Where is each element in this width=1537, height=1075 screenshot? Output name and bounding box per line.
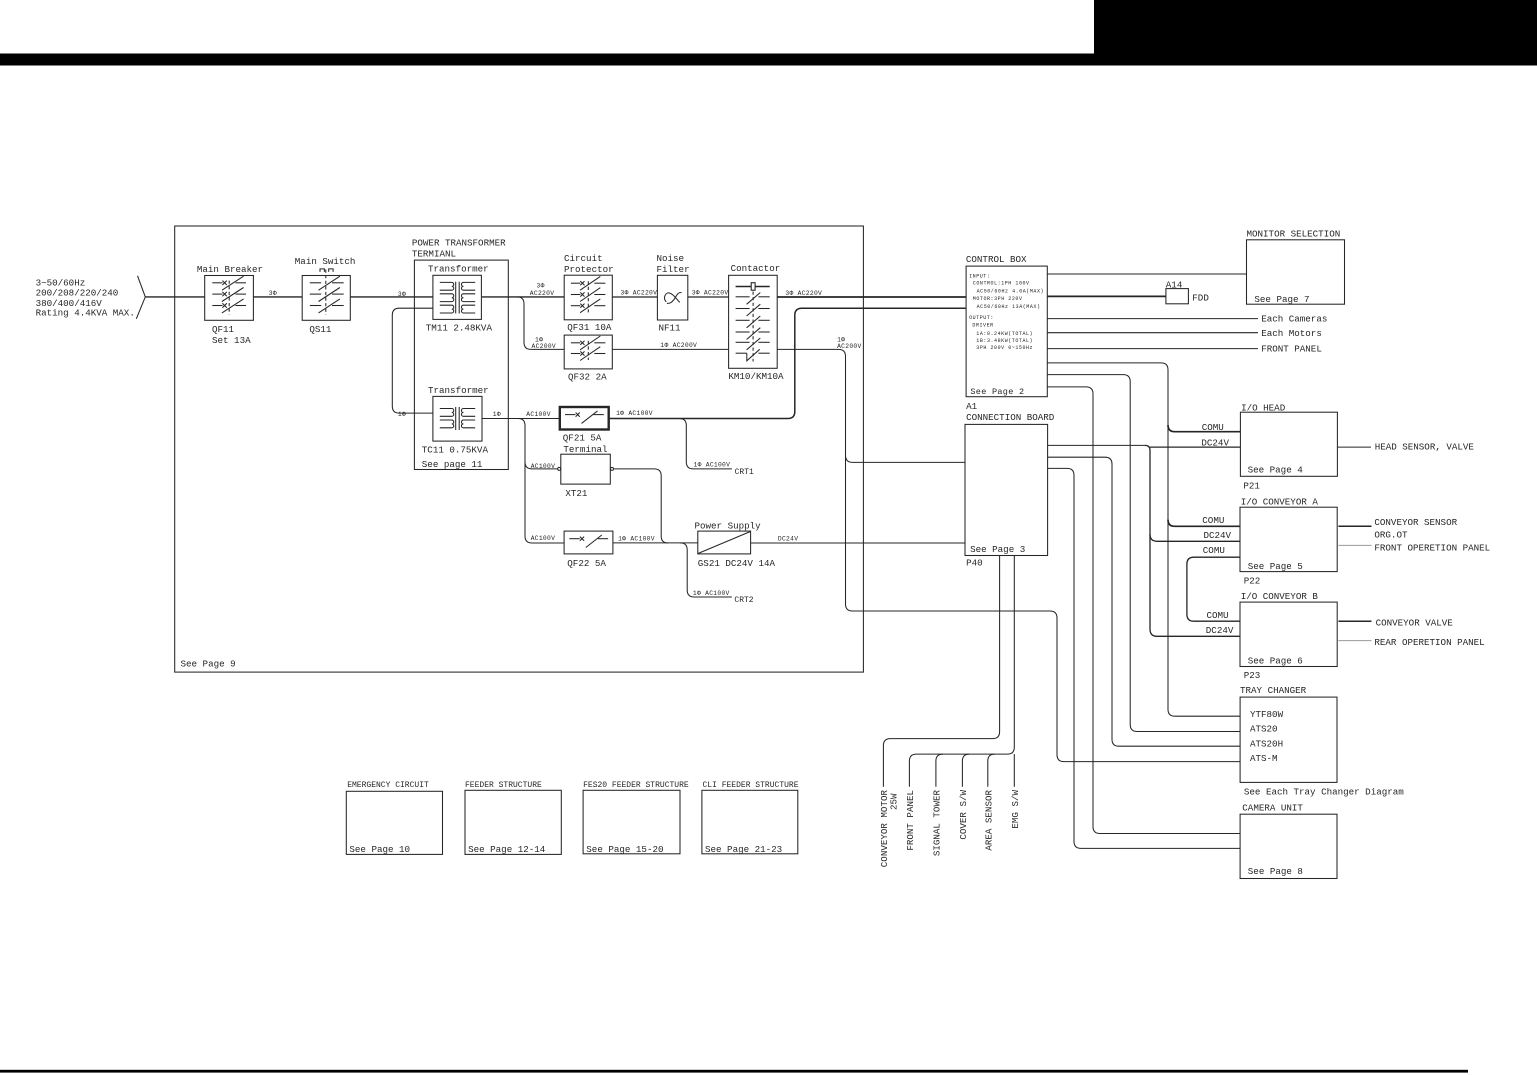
- wire XT21 out joining QF22 output: [614, 469, 669, 543]
- svg-text:Main Switch: Main Switch: [295, 256, 356, 267]
- CLI feeder structure box: [702, 790, 798, 854]
- camera unit box: [1240, 814, 1337, 878]
- I/O conveyor A box: [1240, 507, 1337, 571]
- wire head sensor valve: [1337, 446, 1371, 448]
- svg-text:QF21 5A: QF21 5A: [563, 433, 602, 444]
- wire branch to CRT1: [679, 419, 732, 469]
- svg-text:COMU: COMU: [1207, 610, 1229, 621]
- svg-text:FES20 FEEDER STRUCTURE: FES20 FEEDER STRUCTURE: [583, 781, 689, 790]
- svg-text:MONITOR SELECTION: MONITOR SELECTION: [1247, 229, 1341, 240]
- svg-text:QS11: QS11: [309, 324, 332, 335]
- svg-text:3Φ AC220V: 3Φ AC220V: [785, 290, 822, 297]
- wire COMU link conveyor A to conveyor B: [1187, 557, 1240, 621]
- svg-text:QF32 2A: QF32 2A: [568, 372, 607, 383]
- svg-text:ATS20: ATS20: [1250, 724, 1278, 735]
- wire rear operetion panel: [1338, 640, 1371, 642]
- wire to front panel: [1047, 348, 1258, 350]
- svg-text:1Φ AC100V: 1Φ AC100V: [693, 590, 730, 597]
- svg-text:1A:0.24KW(TOTAL): 1A:0.24KW(TOTAL): [976, 331, 1033, 337]
- svg-text:CONVEYOR SENSOR: CONVEYOR SENSOR: [1374, 517, 1457, 528]
- wire front operetion panel: [1338, 544, 1371, 546]
- svg-text:1Φ AC100V: 1Φ AC100V: [616, 410, 653, 417]
- svg-text:Circuit: Circuit: [564, 253, 603, 264]
- svg-text:DC24V: DC24V: [778, 535, 798, 542]
- I/O conveyor B box: [1240, 602, 1337, 666]
- svg-text:Filter: Filter: [657, 264, 690, 275]
- svg-text:Main Breaker: Main Breaker: [197, 264, 263, 275]
- svg-text:CAMERA UNIT: CAMERA UNIT: [1242, 803, 1303, 814]
- svg-text:1Φ AC100V: 1Φ AC100V: [694, 462, 731, 469]
- svg-text:See Page 8: See Page 8: [1248, 866, 1303, 877]
- svg-text:FRONT OPERETION PANEL: FRONT OPERETION PANEL: [1374, 543, 1490, 554]
- svg-text:FEEDER STRUCTURE: FEEDER STRUCTURE: [465, 781, 542, 790]
- wire to Each Motors: [1047, 332, 1258, 334]
- svg-text:AC200V: AC200V: [532, 343, 556, 350]
- svg-text:CONTROL BOX: CONTROL BOX: [966, 254, 1027, 265]
- svg-text:Each Motors: Each Motors: [1261, 328, 1322, 339]
- wire QF21 out to control box 1PH 100V: [609, 308, 966, 418]
- monitor selection box: [1247, 240, 1345, 304]
- wire QF32 to contactor: [612, 348, 728, 350]
- wire conveyor sensor: [1338, 525, 1371, 527]
- wire supply to QF11: [145, 296, 204, 298]
- svg-text:Set 13A: Set 13A: [212, 335, 251, 346]
- svg-text:3Φ AC220V: 3Φ AC220V: [621, 290, 658, 297]
- svg-text:Power Supply: Power Supply: [695, 521, 762, 532]
- svg-text:I/O CONVEYOR A: I/O CONVEYOR A: [1241, 496, 1319, 507]
- wire signal tower stub: [936, 754, 943, 787]
- svg-text:KM10/KM10A: KM10/KM10A: [728, 371, 784, 382]
- wire QF31 to NF11: [612, 296, 657, 298]
- wire control box to tray changer ATS20: [1047, 375, 1240, 732]
- svg-text:A14: A14: [1166, 279, 1183, 290]
- svg-text:CONVEYOR VALVE: CONVEYOR VALVE: [1376, 617, 1454, 628]
- power transformer terminal box: [414, 260, 508, 469]
- svg-text:INPUT:: INPUT:: [969, 274, 990, 280]
- wire branch to CRT2: [680, 543, 732, 597]
- circuit breaker QF11 Main Breaker: [205, 276, 254, 321]
- svg-text:See Page 7: See Page 7: [1254, 294, 1309, 305]
- svg-text:Terminal: Terminal: [563, 444, 607, 455]
- wire TC11 to QF21: [482, 418, 560, 420]
- wire control box to A14 FDD: [1047, 295, 1166, 297]
- svg-text:1Φ AC100V: 1Φ AC100V: [618, 535, 655, 542]
- svg-text:MOTOR:3PH 220V: MOTOR:3PH 220V: [973, 296, 1023, 302]
- svg-text:See Page 2: See Page 2: [970, 387, 1024, 397]
- svg-text:See Page 15-20: See Page 15-20: [586, 844, 663, 855]
- wire DC24V net from connection board: [1048, 444, 1145, 446]
- svg-text:P21: P21: [1243, 480, 1260, 491]
- svg-text:ATS20H: ATS20H: [1250, 738, 1283, 749]
- circuit protector QF32: [564, 335, 612, 369]
- svg-text:3Φ: 3Φ: [269, 290, 277, 297]
- svg-text:3PH 200V 0~150Hz: 3PH 200V 0~150Hz: [976, 345, 1033, 351]
- svg-text:3Φ AC220V: 3Φ AC220V: [692, 289, 729, 296]
- svg-text:FRONT PANEL: FRONT PANEL: [905, 790, 916, 851]
- svg-text:DC24V: DC24V: [1201, 437, 1229, 448]
- wire COMU bus from control box: [1047, 363, 1240, 716]
- svg-text:QF22 5A: QF22 5A: [567, 558, 606, 569]
- transformer TC11: [433, 396, 482, 441]
- svg-text:AREA SENSOR: AREA SENSOR: [983, 790, 994, 851]
- feeder structure box: [465, 790, 561, 854]
- svg-text:See Page 6: See Page 6: [1248, 656, 1303, 667]
- svg-text:CLI FEEDER STRUCTURE: CLI FEEDER STRUCTURE: [703, 781, 799, 790]
- svg-text:25W: 25W: [889, 793, 900, 810]
- svg-text:200/208/220/240: 200/208/220/240: [36, 288, 119, 299]
- tray changer box: [1240, 697, 1337, 782]
- wire to Each Cameras: [1047, 318, 1258, 320]
- svg-text:Transformer: Transformer: [428, 263, 489, 274]
- wire QS11 to TM11: [350, 296, 433, 298]
- svg-text:AC50/60Hz 13A(MAX): AC50/60Hz 13A(MAX): [977, 304, 1041, 310]
- svg-text:P22: P22: [1244, 576, 1261, 587]
- wire GS21 DC24V to connection board: [751, 542, 965, 544]
- svg-text:CRT2: CRT2: [734, 596, 753, 605]
- svg-text:CONNECTION BOARD: CONNECTION BOARD: [966, 412, 1055, 423]
- svg-text:NF11: NF11: [659, 323, 682, 334]
- wire TM11 to QF31: [482, 296, 564, 298]
- svg-text:FDD: FDD: [1192, 293, 1209, 304]
- wire emg s/w stub: [1013, 754, 1015, 787]
- circuit protector QF31: [564, 275, 612, 320]
- svg-text:AC50/60Hz 4.0A(MAX): AC50/60Hz 4.0A(MAX): [977, 288, 1044, 294]
- svg-text:I/O HEAD: I/O HEAD: [1241, 402, 1286, 413]
- svg-text:1Φ: 1Φ: [493, 411, 501, 418]
- svg-text:P23: P23: [1244, 670, 1261, 681]
- wire connection board to camera unit 2: [1048, 468, 1241, 848]
- wire area sensor stub: [988, 754, 995, 787]
- svg-text:COMU: COMU: [1202, 515, 1224, 526]
- wire branch TC11 out to XT21 and QF22: [518, 419, 564, 544]
- svg-text:GS21 DC24V 14A: GS21 DC24V 14A: [698, 558, 776, 569]
- svg-text:TERMIANL: TERMIANL: [412, 248, 456, 259]
- circuit breaker QF22: [564, 531, 613, 554]
- wire conveyor valve: [1338, 620, 1371, 622]
- connection board A1: [965, 424, 1048, 555]
- svg-text:FRONT PANEL: FRONT PANEL: [1261, 343, 1322, 354]
- svg-text:EMERGENCY CIRCUIT: EMERGENCY CIRCUIT: [347, 781, 429, 790]
- svg-text:P40: P40: [966, 558, 983, 569]
- page header black block: [1094, 0, 1537, 54]
- svg-text:ORG.OT: ORG.OT: [1374, 530, 1408, 541]
- wire conveyor motor to connection board: [883, 556, 999, 787]
- wire branch to QF32: [517, 297, 564, 350]
- enclosure box See Page 9: [175, 226, 864, 672]
- svg-text:CRT1: CRT1: [735, 468, 754, 477]
- power supply GS21: [698, 531, 751, 554]
- svg-text:See page 11: See page 11: [422, 459, 483, 470]
- svg-text:See Page 10: See Page 10: [349, 844, 410, 855]
- svg-text:ATS-M: ATS-M: [1250, 753, 1278, 764]
- svg-text:POWER TRANSFORMER: POWER TRANSFORMER: [412, 238, 506, 249]
- contactor pole 6: [736, 352, 747, 354]
- svg-text:QF31 10A: QF31 10A: [567, 322, 612, 333]
- svg-text:Protector: Protector: [564, 264, 614, 275]
- svg-text:A1: A1: [966, 401, 978, 412]
- wire QF11 to QS11: [253, 296, 302, 298]
- emergency circuit box: [346, 791, 442, 854]
- page footer rule: [0, 1070, 1468, 1073]
- interface board A14: [1166, 289, 1189, 304]
- svg-text:YTF80W: YTF80W: [1250, 709, 1284, 720]
- page header black bar: [0, 54, 1537, 66]
- control box A1: [966, 266, 1047, 397]
- svg-text:AC200V: AC200V: [837, 343, 861, 350]
- wire contactor AC200V to connection board and tray changer ATS-M: [777, 349, 1240, 761]
- svg-text:1Φ: 1Φ: [398, 411, 406, 418]
- svg-text:COVER S/W: COVER S/W: [958, 790, 969, 840]
- svg-text:REAR OPERETION PANEL: REAR OPERETION PANEL: [1374, 637, 1484, 648]
- svg-text:Each Cameras: Each Cameras: [1261, 314, 1327, 325]
- svg-text:OUTPUT:: OUTPUT:: [969, 315, 994, 321]
- svg-text:COMU: COMU: [1203, 545, 1225, 556]
- svg-text:TC11 0.75KVA: TC11 0.75KVA: [422, 444, 489, 455]
- svg-text:EMG S/W: EMG S/W: [1010, 790, 1021, 829]
- svg-text:See Each Tray Changer Diagram: See Each Tray Changer Diagram: [1244, 787, 1404, 798]
- svg-text:See Page 12-14: See Page 12-14: [468, 844, 546, 855]
- svg-text:Transformer: Transformer: [428, 385, 489, 396]
- svg-text:Noise: Noise: [657, 253, 685, 264]
- wire contactor to control box 3ph AC220V: [777, 296, 966, 298]
- svg-text:TRAY CHANGER: TRAY CHANGER: [1240, 685, 1307, 696]
- transformer TM11: [433, 275, 482, 319]
- circuit breaker QF21 (bold): [560, 407, 609, 430]
- wire signal bus to connection board: [909, 556, 1014, 787]
- svg-text:DRIVER: DRIVER: [972, 322, 993, 328]
- terminal XT21: [561, 454, 611, 484]
- contactor KM10/KM10A: [729, 275, 778, 368]
- svg-text:3Φ: 3Φ: [537, 283, 545, 290]
- svg-text:I/O CONVEYOR B: I/O CONVEYOR B: [1241, 591, 1319, 602]
- svg-text:QF11: QF11: [212, 324, 235, 335]
- wire control box to monitor selection: [1047, 273, 1246, 275]
- wire connection board to tray changer ATS20H: [1048, 457, 1241, 746]
- wire TM11 tap to TC11: [392, 308, 433, 413]
- wire NF11 to contactor: [688, 296, 729, 298]
- svg-text:See Page 21-23: See Page 21-23: [705, 844, 782, 855]
- svg-text:1Φ AC200V: 1Φ AC200V: [660, 342, 697, 349]
- wire cover s/w stub: [962, 754, 969, 787]
- wire QF22 to power supply GS21: [613, 542, 698, 544]
- svg-text:1B:3.48KW(TOTAL): 1B:3.48KW(TOTAL): [976, 338, 1033, 344]
- svg-text:SIGNAL TOWER: SIGNAL TOWER: [931, 790, 942, 857]
- svg-text:COMU: COMU: [1202, 422, 1224, 433]
- svg-text:AC100V: AC100V: [531, 463, 555, 470]
- svg-text:3Φ: 3Φ: [398, 291, 406, 298]
- svg-text:Contactor: Contactor: [731, 263, 781, 274]
- svg-text:See Page 5: See Page 5: [1248, 561, 1303, 572]
- svg-text:CONTROL:1PH 100V: CONTROL:1PH 100V: [973, 281, 1030, 287]
- svg-text:AC220V: AC220V: [530, 290, 554, 297]
- FES20 feeder structure box: [583, 790, 680, 854]
- svg-text:HEAD SENSOR, VALVE: HEAD SENSOR, VALVE: [1375, 441, 1475, 452]
- switch QS11 Main Switch: [302, 276, 350, 321]
- svg-text:AC100V: AC100V: [526, 411, 550, 418]
- I/O head box: [1240, 412, 1337, 476]
- svg-text:AC100V: AC100V: [531, 535, 555, 542]
- svg-text:XT21: XT21: [565, 488, 588, 499]
- svg-text:DC24V: DC24V: [1206, 625, 1234, 636]
- svg-text:See Page 3: See Page 3: [970, 544, 1025, 555]
- noise filter NF11: [657, 275, 687, 320]
- svg-text:See Page 4: See Page 4: [1248, 465, 1304, 476]
- wire control box to camera unit: [1047, 387, 1240, 834]
- svg-text:Rating 4.4KVA MAX.: Rating 4.4KVA MAX.: [36, 308, 135, 319]
- svg-text:DC24V: DC24V: [1204, 530, 1232, 541]
- svg-text:TM11 2.48KVA: TM11 2.48KVA: [426, 323, 493, 334]
- svg-text:See Page 9: See Page 9: [181, 659, 236, 670]
- supply chevron: [136, 276, 145, 319]
